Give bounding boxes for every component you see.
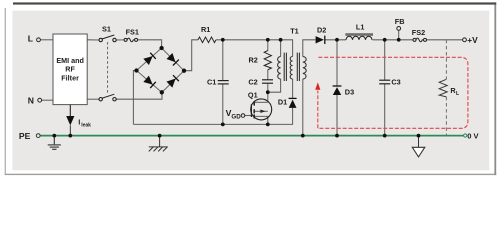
diode D2 — [316, 36, 324, 43]
MOSFET Q1 — [251, 99, 272, 120]
svg-text:C2: C2 — [248, 78, 257, 87]
wire C1 branch bottom — [222, 84, 224, 124]
frame right border — [494, 2, 496, 175]
panel background — [12, 11, 489, 171]
capacitor C3 — [379, 80, 390, 84]
svg-text:C1: C1 — [207, 77, 216, 86]
svg-text:GD: GD — [231, 113, 241, 120]
svg-text:FB: FB — [395, 17, 405, 26]
svg-text:D1: D1 — [278, 97, 287, 106]
fuse FS1 — [124, 38, 138, 42]
wire C3 branch top — [384, 40, 386, 80]
T1 secondary winding — [303, 57, 306, 80]
load resistor RL dashed leads — [445, 40, 447, 136]
node C1/rail — [221, 123, 225, 127]
terminal +V — [463, 38, 467, 42]
wire FS2 to +V — [427, 39, 463, 41]
wire snubber branch top — [267, 40, 269, 51]
node bridge bottom — [160, 90, 164, 94]
frame bottom border — [5, 174, 497, 175]
node signal gnd/green — [417, 134, 421, 138]
wire R1 to winding B top (bus) — [216, 40, 293, 57]
wire R2 to C2 — [267, 70, 269, 80]
red dashed current loop — [318, 57, 468, 128]
T1 demag winding B — [290, 57, 292, 80]
bridge diode lower-left — [143, 76, 155, 88]
bridge diode upper-right — [166, 53, 178, 65]
node C3/green — [383, 134, 387, 138]
node FB/bus — [397, 38, 401, 42]
wire bridge right vertex to R1 — [184, 40, 198, 71]
wire FS1 to bridge top vertex — [138, 40, 162, 48]
wire L terminal to EMI filter — [41, 39, 54, 41]
svg-text:T1: T1 — [290, 27, 299, 36]
node D2-L1-D3 — [335, 38, 339, 42]
svg-text:Filter: Filter — [61, 73, 79, 82]
bridge diode lower-right — [166, 75, 178, 87]
diode D1 — [289, 97, 297, 99]
T1 primary winding A — [278, 57, 281, 80]
svg-text:RF: RF — [65, 65, 75, 74]
wire secondary top to D2 — [303, 40, 316, 57]
diode D3 — [333, 85, 342, 87]
wire C3 branch bottom — [384, 84, 386, 136]
inductor L1 — [346, 34, 373, 36]
chassis ground (middle) — [149, 136, 168, 152]
svg-text:FS2: FS2 — [412, 28, 425, 37]
svg-text:EMI and: EMI and — [56, 56, 84, 65]
capacitor C2 — [262, 80, 273, 83]
terminal VGD — [241, 114, 245, 118]
switch S1 pole 2 — [99, 94, 116, 101]
wire D1 cathode to winding B bottom — [292, 79, 294, 98]
capacitor C1 — [218, 81, 229, 84]
node D3/green — [335, 134, 339, 138]
resistor R1 — [198, 37, 216, 43]
wire C1 branch top — [222, 40, 224, 81]
node bridge left — [134, 68, 138, 72]
wire Q1 mid lead — [254, 110, 267, 112]
svg-text:R1: R1 — [201, 25, 210, 34]
transformer T1 — [278, 53, 307, 81]
svg-text:C3: C3 — [391, 78, 400, 87]
wire negative rail to D1 anode — [133, 108, 292, 125]
svg-text:I: I — [78, 118, 80, 127]
fuse FS2 — [413, 38, 427, 42]
wire C2 to drain node — [267, 83, 269, 92]
svg-text:Q1: Q1 — [248, 90, 258, 99]
wire bridge left vertex down riser — [133, 71, 136, 125]
node chassis gnd/green — [158, 134, 162, 138]
wire EMI filter to S1 pole 2 — [87, 98, 99, 100]
svg-text:R2: R2 — [249, 56, 258, 65]
wire EMI filter to S1 pole 1 — [87, 39, 99, 41]
wire D3 branch bottom — [336, 95, 338, 136]
terminal N — [38, 98, 42, 102]
wire drain node to Q1 drain — [267, 92, 269, 102]
green PE / 0V wire — [40, 135, 464, 137]
wire D2 to L1 — [325, 39, 346, 41]
wire N terminal to EMI filter — [42, 99, 53, 101]
frame top border — [13, 2, 496, 4]
svg-text:L1: L1 — [356, 23, 365, 32]
T1 core pair 1 — [283, 53, 285, 81]
node Ileak/green — [68, 134, 72, 138]
svg-text:leak: leak — [81, 123, 91, 129]
signal ground triangle (secondary) — [418, 136, 420, 148]
wire Q1 drain lead — [254, 101, 267, 103]
svg-text:L: L — [28, 33, 33, 43]
red loop arrow — [315, 82, 320, 89]
svg-text:S1: S1 — [102, 25, 111, 34]
node snubber/drain — [266, 90, 270, 94]
svg-text:PE: PE — [19, 131, 31, 141]
wire secondary bottom to 0V rail — [302, 79, 304, 136]
svg-text:0 V: 0 V — [467, 132, 479, 141]
resistor R2 — [264, 51, 271, 70]
node C3/bus — [383, 38, 387, 42]
wire FB stub — [398, 30, 400, 40]
terminal 0V — [464, 134, 467, 137]
wire VGD terminal to gate — [245, 115, 252, 117]
terminal FB — [397, 27, 401, 31]
leakage current arrow Ileak — [69, 105, 71, 117]
bridge diode upper-left — [143, 53, 155, 65]
wire winding A bottom to drain node — [268, 79, 281, 92]
node bridge top — [159, 46, 163, 50]
svg-text:+V: +V — [467, 35, 478, 45]
bridge rectifier diamond — [137, 48, 185, 92]
node source/rail — [266, 123, 270, 127]
terminal L — [37, 38, 41, 42]
node primary/bus — [279, 38, 283, 42]
wire S1 pole1 to FS1 — [116, 39, 124, 41]
frame left border — [5, 8, 6, 175]
node PE ground — [52, 134, 56, 138]
node secondary/green — [301, 134, 305, 138]
T1 core pair 2 — [296, 53, 298, 81]
svg-text:D3: D3 — [345, 88, 354, 97]
load resistor RL — [439, 79, 447, 97]
earth ground at PE — [48, 136, 61, 150]
node C1/bus — [221, 38, 225, 42]
wire winding A top lead — [280, 40, 282, 57]
switch S1 pole 1 — [99, 35, 116, 42]
node bridge right — [182, 69, 186, 73]
svg-text:FS1: FS1 — [126, 27, 139, 36]
wire Q1 source to rail — [254, 116, 267, 124]
node R2/bus — [266, 38, 270, 42]
wire D3 branch top — [336, 40, 338, 86]
EMI filter box — [53, 34, 87, 105]
S1 gang dashed link — [107, 42, 109, 93]
terminal PE — [36, 134, 40, 138]
svg-text:N: N — [28, 96, 34, 106]
svg-text:D2: D2 — [317, 26, 326, 35]
wire S1 pole2 to bridge bottom vertex — [116, 93, 162, 100]
wire L1 to FS2 — [373, 39, 414, 41]
